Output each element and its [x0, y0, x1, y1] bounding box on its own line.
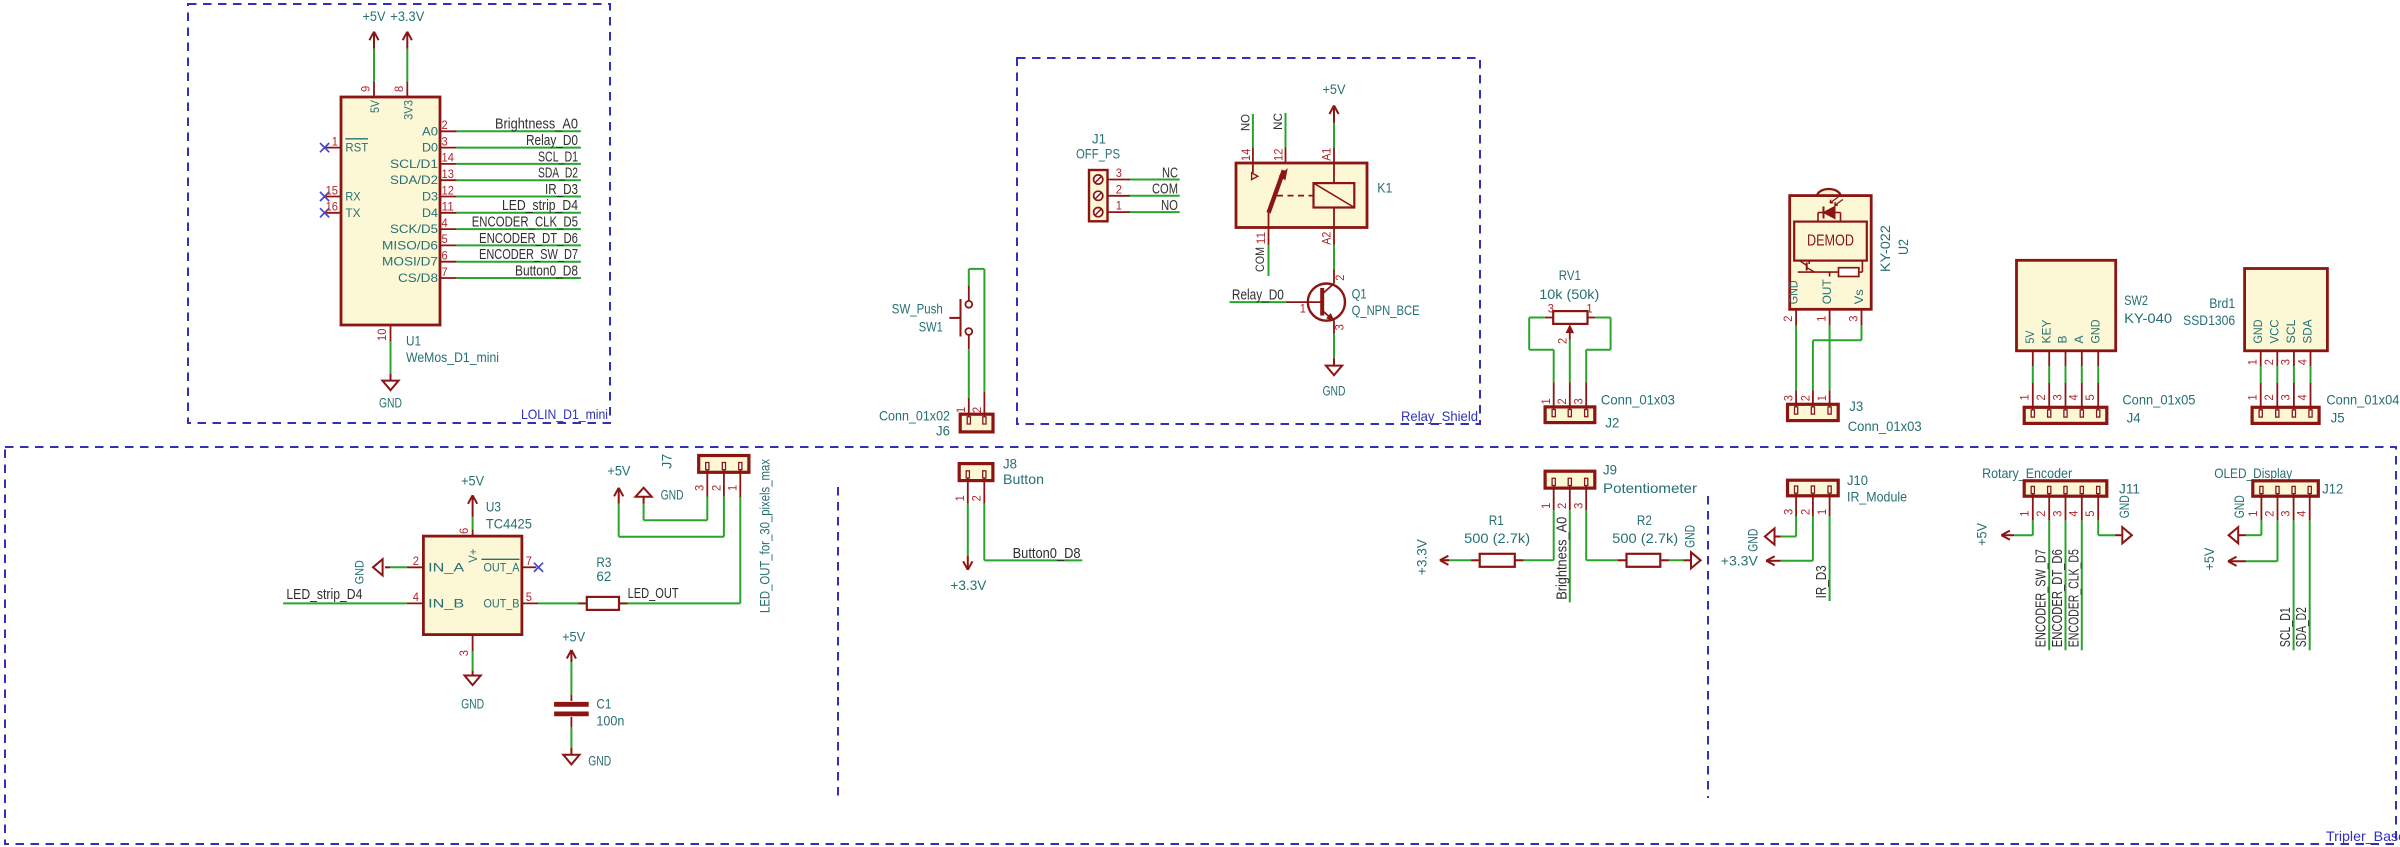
svg-text:NC: NC — [1271, 113, 1285, 130]
svg-text:+5V: +5V — [363, 9, 386, 24]
svg-text:2: 2 — [2262, 359, 2276, 365]
svg-text:+5V: +5V — [461, 474, 484, 489]
svg-text:ENCODER_SW_D7: ENCODER_SW_D7 — [479, 246, 578, 263]
svg-text:COM: COM — [1253, 247, 1267, 272]
svg-text:R2: R2 — [1637, 512, 1652, 528]
svg-text:7: 7 — [442, 265, 448, 279]
svg-text:D0: D0 — [422, 141, 438, 155]
svg-text:1: 1 — [2246, 510, 2260, 516]
svg-text:B: B — [2056, 336, 2070, 344]
svg-text:Conn_01x04: Conn_01x04 — [2326, 392, 2399, 408]
svg-text:Button0_D8: Button0_D8 — [1013, 545, 1081, 562]
svg-text:5V: 5V — [368, 100, 382, 113]
svg-text:2: 2 — [1116, 182, 1122, 196]
svg-text:V+: V+ — [466, 549, 480, 563]
svg-text:Q1: Q1 — [1352, 286, 1367, 302]
svg-text:COM: COM — [1152, 181, 1178, 198]
svg-text:U1: U1 — [406, 333, 421, 349]
svg-text:12: 12 — [1272, 148, 1286, 161]
svg-text:8: 8 — [392, 86, 406, 92]
svg-text:J7: J7 — [659, 453, 675, 468]
svg-text:1: 1 — [1300, 302, 1306, 316]
svg-text:3: 3 — [442, 134, 448, 148]
svg-text:A0: A0 — [422, 124, 438, 138]
svg-text:OUT_B: OUT_B — [484, 596, 520, 610]
svg-text:+3.3V: +3.3V — [1415, 539, 1430, 575]
svg-text:OUT_A: OUT_A — [484, 560, 520, 574]
svg-text:3: 3 — [2279, 394, 2293, 400]
svg-text:J10: J10 — [1847, 472, 1868, 488]
svg-text:3: 3 — [2050, 510, 2064, 516]
svg-text:2: 2 — [970, 495, 984, 501]
svg-text:SCL/D1: SCL/D1 — [390, 157, 438, 171]
svg-text:ENCODER_SW_D7: ENCODER_SW_D7 — [2033, 549, 2050, 647]
svg-text:R1: R1 — [1489, 512, 1504, 528]
svg-text:3: 3 — [1782, 509, 1796, 515]
svg-text:IR_D3: IR_D3 — [1813, 565, 1830, 598]
svg-text:RX: RX — [345, 190, 360, 204]
svg-text:+5V: +5V — [1975, 523, 1990, 546]
svg-text:2: 2 — [1555, 502, 1569, 508]
svg-text:+5V: +5V — [562, 629, 585, 644]
svg-text:2: 2 — [442, 118, 448, 132]
svg-text:Relay_D0: Relay_D0 — [1232, 287, 1284, 304]
svg-text:SCL_D1: SCL_D1 — [2277, 607, 2294, 647]
svg-text:9: 9 — [359, 86, 373, 92]
svg-text:SW1: SW1 — [919, 319, 943, 335]
svg-text:1: 1 — [953, 495, 967, 501]
svg-text:GND: GND — [2117, 495, 2132, 518]
svg-text:7: 7 — [526, 554, 532, 568]
svg-text:SCK/D5: SCK/D5 — [390, 222, 438, 236]
svg-text:SW_Push: SW_Push — [892, 300, 943, 316]
svg-text:3: 3 — [1333, 324, 1347, 330]
svg-text:J2: J2 — [1605, 415, 1619, 431]
svg-text:A: A — [2072, 336, 2086, 344]
svg-text:J6: J6 — [936, 423, 950, 439]
svg-text:Tripler_Base: Tripler_Base — [2326, 828, 2400, 844]
svg-text:2: 2 — [1555, 338, 1569, 344]
svg-text:J8: J8 — [1003, 455, 1017, 471]
svg-text:SCL: SCL — [2284, 319, 2298, 343]
svg-text:Relay_Shield: Relay_Shield — [1401, 408, 1478, 424]
svg-text:IN_A: IN_A — [428, 560, 464, 574]
svg-text:500 (2.7k): 500 (2.7k) — [1464, 530, 1530, 546]
svg-text:4: 4 — [413, 590, 419, 604]
svg-text:13: 13 — [442, 167, 455, 181]
svg-text:100n: 100n — [596, 712, 624, 728]
svg-text:2: 2 — [413, 554, 419, 568]
svg-text:3V3: 3V3 — [401, 100, 415, 120]
svg-text:11: 11 — [1254, 232, 1268, 245]
svg-text:SCL_D1: SCL_D1 — [538, 148, 578, 165]
svg-text:14: 14 — [442, 151, 455, 165]
svg-text:3: 3 — [1782, 395, 1796, 401]
svg-text:3: 3 — [457, 650, 471, 656]
svg-text:3: 3 — [1846, 315, 1860, 321]
svg-text:OFF_PS: OFF_PS — [1076, 146, 1120, 162]
svg-text:16: 16 — [326, 200, 339, 214]
svg-text:Conn_01x05: Conn_01x05 — [2122, 392, 2195, 408]
svg-text:Q_NPN_BCE: Q_NPN_BCE — [1352, 302, 1420, 318]
svg-text:D4: D4 — [422, 206, 438, 220]
svg-text:MISO/D6: MISO/D6 — [382, 238, 438, 252]
svg-text:3: 3 — [2050, 394, 2064, 400]
svg-text:15: 15 — [326, 183, 339, 197]
svg-text:3: 3 — [693, 485, 707, 491]
svg-text:Relay_D0: Relay_D0 — [526, 132, 578, 149]
svg-text:2: 2 — [1555, 398, 1569, 404]
svg-text:SDA_D2: SDA_D2 — [2293, 607, 2310, 647]
svg-text:ENCODER_CLK_D5: ENCODER_CLK_D5 — [472, 214, 578, 231]
svg-text:ENCODER_DT_D6: ENCODER_DT_D6 — [2049, 549, 2066, 647]
svg-text:SSD1306: SSD1306 — [2183, 312, 2235, 328]
svg-text:5V: 5V — [2023, 331, 2037, 344]
svg-text:C1: C1 — [596, 695, 611, 711]
svg-text:GND: GND — [588, 753, 611, 768]
svg-text:1: 1 — [1815, 509, 1829, 515]
svg-text:IN_B: IN_B — [428, 596, 464, 610]
svg-text:J3: J3 — [1849, 398, 1863, 414]
svg-text:+5V: +5V — [607, 463, 630, 478]
svg-text:GND: GND — [1323, 384, 1346, 399]
svg-text:LED_strip_D4: LED_strip_D4 — [286, 586, 362, 603]
svg-text:J4: J4 — [2127, 410, 2141, 426]
svg-text:Brd1: Brd1 — [2209, 295, 2235, 311]
svg-text:+5V: +5V — [2202, 548, 2217, 571]
svg-text:+3.3V: +3.3V — [1721, 553, 1758, 568]
svg-text:DEMOD: DEMOD — [1807, 232, 1854, 249]
svg-text:OUT: OUT — [1820, 279, 1834, 305]
svg-text:4: 4 — [442, 216, 448, 230]
svg-text:KEY: KEY — [2039, 320, 2053, 344]
svg-text:1: 1 — [2246, 359, 2260, 365]
svg-text:GND: GND — [1787, 280, 1801, 304]
svg-text:3: 3 — [1572, 398, 1586, 404]
svg-text:1: 1 — [332, 134, 338, 148]
svg-text:OLED_Display: OLED_Display — [2214, 465, 2292, 481]
svg-text:4: 4 — [2295, 359, 2309, 365]
svg-text:J9: J9 — [1603, 462, 1617, 478]
svg-text:14: 14 — [1239, 148, 1253, 161]
svg-text:SDA_D2: SDA_D2 — [538, 165, 578, 182]
svg-text:U2: U2 — [1895, 239, 1911, 255]
svg-text:3: 3 — [1572, 502, 1586, 508]
svg-text:GND: GND — [379, 396, 402, 411]
svg-text:Button: Button — [1003, 471, 1044, 487]
svg-text:+3.3V: +3.3V — [390, 9, 424, 24]
svg-text:5: 5 — [526, 590, 532, 604]
svg-text:4: 4 — [2067, 394, 2081, 400]
svg-text:2: 2 — [2262, 510, 2276, 516]
svg-text:2: 2 — [1781, 315, 1795, 321]
svg-text:A1: A1 — [1320, 148, 1334, 161]
svg-text:2: 2 — [2262, 394, 2276, 400]
svg-text:Conn_01x02: Conn_01x02 — [879, 407, 950, 423]
svg-text:GND: GND — [461, 697, 484, 712]
svg-text:4: 4 — [2295, 510, 2309, 516]
svg-text:J5: J5 — [2331, 410, 2345, 426]
svg-text:NO: NO — [1161, 197, 1178, 214]
svg-text:1: 1 — [1815, 395, 1829, 401]
svg-text:1: 1 — [1116, 199, 1122, 213]
svg-text:2: 2 — [1333, 274, 1347, 280]
svg-text:NC: NC — [1162, 164, 1178, 181]
svg-text:RV1: RV1 — [1559, 267, 1581, 283]
svg-text:4: 4 — [2067, 510, 2081, 516]
svg-text:Vs: Vs — [1852, 289, 1866, 304]
svg-text:500 (2.7k): 500 (2.7k) — [1612, 530, 1678, 546]
svg-text:TC4425: TC4425 — [486, 515, 532, 531]
svg-text:RST: RST — [345, 141, 368, 155]
svg-text:1: 1 — [726, 485, 740, 491]
svg-text:3: 3 — [2279, 359, 2293, 365]
svg-text:62: 62 — [596, 568, 611, 584]
svg-text:ENCODER_DT_D6: ENCODER_DT_D6 — [479, 230, 578, 247]
svg-text:GND: GND — [2251, 319, 2265, 343]
svg-text:Conn_01x03: Conn_01x03 — [1601, 391, 1675, 407]
svg-text:GND: GND — [2232, 495, 2247, 518]
svg-text:GND: GND — [353, 560, 367, 584]
svg-text:GND: GND — [2088, 319, 2102, 343]
svg-text:12: 12 — [442, 183, 455, 197]
svg-text:SW2: SW2 — [2124, 292, 2148, 308]
svg-text:1: 1 — [1814, 315, 1828, 321]
svg-text:K1: K1 — [1377, 180, 1392, 196]
svg-text:Conn_01x03: Conn_01x03 — [1848, 418, 1922, 434]
svg-text:4: 4 — [2295, 394, 2309, 400]
svg-text:J11: J11 — [2119, 481, 2140, 497]
svg-text:NO: NO — [1238, 114, 1252, 131]
svg-text:1: 1 — [1539, 502, 1553, 508]
svg-text:1: 1 — [2018, 510, 2032, 516]
svg-text:3: 3 — [1116, 166, 1122, 180]
svg-text:3: 3 — [1548, 302, 1554, 316]
svg-text:Potentiometer: Potentiometer — [1603, 480, 1697, 496]
svg-text:IR_D3: IR_D3 — [545, 181, 578, 198]
svg-text:2: 2 — [1798, 509, 1812, 515]
svg-text:A2: A2 — [1320, 231, 1334, 244]
svg-text:VCC: VCC — [2268, 319, 2282, 343]
svg-text:ENCODER_CLK_D5: ENCODER_CLK_D5 — [2065, 549, 2082, 647]
svg-text:10k (50k): 10k (50k) — [1539, 286, 1599, 302]
svg-text:Button0_D8: Button0_D8 — [515, 262, 578, 279]
svg-text:CS/D8: CS/D8 — [398, 271, 438, 285]
svg-text:KY-040: KY-040 — [2124, 310, 2172, 326]
svg-text:11: 11 — [442, 200, 455, 214]
svg-text:IR_Module: IR_Module — [1847, 488, 1907, 504]
svg-text:2: 2 — [1798, 395, 1812, 401]
svg-text:GND: GND — [1682, 525, 1697, 548]
svg-text:D3: D3 — [422, 190, 438, 204]
svg-text:2: 2 — [709, 485, 723, 491]
svg-text:1: 1 — [1539, 398, 1553, 404]
svg-text:Brightness_A0: Brightness_A0 — [1553, 517, 1570, 600]
svg-text:TX: TX — [345, 206, 360, 220]
svg-text:+5V: +5V — [1323, 82, 1346, 97]
svg-text:5: 5 — [2083, 394, 2097, 400]
svg-text:1: 1 — [2246, 394, 2260, 400]
svg-text:6: 6 — [442, 249, 448, 263]
svg-text:+3.3V: +3.3V — [950, 578, 986, 593]
svg-text:Rotary_Encoder: Rotary_Encoder — [1982, 465, 2072, 481]
svg-text:2: 2 — [2034, 394, 2048, 400]
svg-text:GND: GND — [1745, 529, 1760, 552]
svg-text:SDA: SDA — [2301, 320, 2315, 344]
svg-text:Brightness_A0: Brightness_A0 — [495, 116, 578, 133]
svg-text:5: 5 — [442, 232, 448, 246]
svg-text:2: 2 — [2034, 510, 2048, 516]
svg-text:10: 10 — [375, 328, 389, 341]
svg-text:LOLIN_D1_mini: LOLIN_D1_mini — [521, 406, 608, 422]
svg-text:GND: GND — [661, 488, 684, 503]
svg-text:2: 2 — [970, 407, 984, 413]
svg-text:J1: J1 — [1092, 131, 1106, 147]
svg-text:KY-022: KY-022 — [1877, 225, 1893, 272]
svg-text:1: 1 — [954, 407, 968, 413]
svg-text:SDA/D2: SDA/D2 — [390, 173, 438, 187]
svg-text:1: 1 — [2018, 394, 2032, 400]
svg-text:6: 6 — [457, 528, 471, 534]
svg-text:WeMos_D1_mini: WeMos_D1_mini — [406, 349, 499, 365]
svg-text:U3: U3 — [486, 499, 501, 515]
svg-text:LED_OUT_for_30_pixels_max: LED_OUT_for_30_pixels_max — [757, 459, 773, 613]
svg-text:1: 1 — [1586, 302, 1592, 316]
svg-text:LED_OUT: LED_OUT — [628, 585, 679, 602]
svg-text:3: 3 — [2278, 510, 2292, 516]
svg-text:5: 5 — [2083, 510, 2097, 516]
svg-text:LED_strip_D4: LED_strip_D4 — [502, 197, 578, 214]
svg-text:MOSI/D7: MOSI/D7 — [382, 255, 438, 269]
svg-text:J12: J12 — [2322, 481, 2343, 497]
